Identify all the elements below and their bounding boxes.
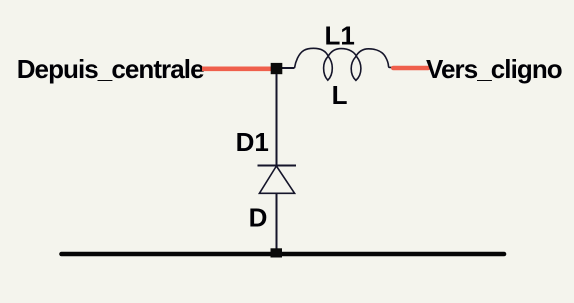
wire (red) from Depuis_centrale to node xyxy=(202,67,277,72)
diode D1 triangle xyxy=(259,166,294,193)
ground rail xyxy=(62,252,505,257)
junction node (top) xyxy=(271,63,283,74)
inductor L1 xyxy=(295,48,392,80)
svg-text:Vers_cligno: Vers_cligno xyxy=(426,54,562,84)
wire from node to inductor L1 xyxy=(282,67,295,69)
diode D1 cathode bar xyxy=(258,165,297,167)
svg-text:Depuis_centrale: Depuis_centrale xyxy=(17,54,204,84)
svg-text:L: L xyxy=(332,80,348,110)
svg-text:D: D xyxy=(249,203,268,233)
wire from node down to diode D1 xyxy=(276,74,278,166)
wire from diode D1 anode down to ground rail xyxy=(276,193,278,254)
svg-text:L1: L1 xyxy=(325,21,355,51)
svg-text:D1: D1 xyxy=(236,127,269,157)
wire (red) from L1 to Vers_cligno xyxy=(393,66,428,71)
junction node (bottom) xyxy=(271,248,283,257)
